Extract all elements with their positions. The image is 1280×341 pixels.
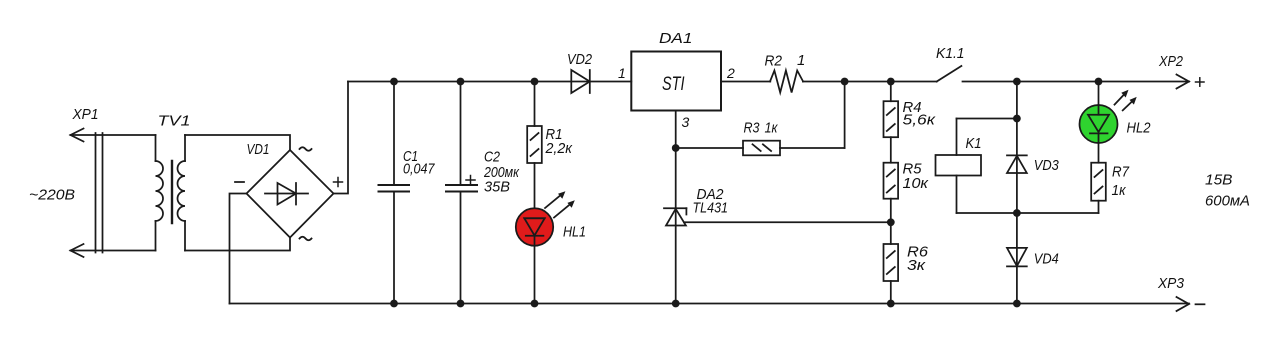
svg-text:10к: 10к bbox=[903, 175, 929, 192]
svg-text:~220В: ~220В bbox=[29, 187, 75, 204]
svg-text:TV1: TV1 bbox=[158, 113, 191, 130]
wire TL431 ref to R5/R6 junction bbox=[684, 221, 891, 223]
svg-text:HL2: HL2 bbox=[1127, 120, 1152, 137]
capacitor C2 bbox=[446, 82, 477, 304]
wire secondary bottom to bridge bbox=[185, 238, 290, 251]
svg-text:1к: 1к bbox=[1112, 182, 1127, 199]
svg-text:TL431: TL431 bbox=[693, 200, 729, 217]
label XP2 plus bbox=[1196, 78, 1205, 86]
connector XP2 arrow bbox=[1177, 75, 1190, 89]
wire R2 right to switch bbox=[803, 81, 937, 83]
label C2 plus bbox=[466, 176, 475, 185]
LED HL1 bbox=[516, 191, 575, 303]
svg-text:XP2: XP2 bbox=[1158, 53, 1183, 70]
transformer TV1 primary winding bbox=[71, 135, 164, 251]
svg-text:VD3: VD3 bbox=[1034, 157, 1060, 174]
wire secondary top to bridge bbox=[185, 135, 290, 150]
wire top rail middle section bbox=[721, 81, 770, 83]
wire top rail left section bbox=[348, 81, 631, 83]
resistor R2 zigzag bbox=[770, 71, 803, 93]
bridge rectifier VD1 bbox=[247, 150, 334, 238]
wire VD3/VD4 branch bbox=[1016, 82, 1018, 304]
shunt regulator DA2 TL431 bbox=[664, 208, 686, 225]
svg-text:HL1: HL1 bbox=[563, 224, 586, 241]
svg-text:DA1: DA1 bbox=[659, 30, 693, 47]
diode VD3 bbox=[1007, 155, 1027, 173]
wire top rail right section bbox=[963, 81, 1190, 83]
svg-text:K1.1: K1.1 bbox=[936, 45, 965, 62]
junction dots top rail bbox=[390, 78, 1102, 86]
wire bridge plus to top rail bbox=[334, 82, 349, 194]
resistor R7 bbox=[1017, 163, 1106, 213]
label bridge minus bbox=[235, 181, 244, 183]
label tilde bottom bbox=[300, 237, 312, 241]
relay K1 bbox=[936, 119, 1017, 214]
svg-text:600мА: 600мА bbox=[1205, 193, 1250, 210]
svg-text:VD4: VD4 bbox=[1034, 251, 1059, 268]
resistor R1 bbox=[527, 82, 542, 209]
connector XP1 bbox=[71, 129, 103, 258]
op-amp U1 / regulator DA1 bbox=[631, 52, 721, 111]
svg-text:VD1: VD1 bbox=[247, 141, 270, 158]
svg-text:0,047: 0,047 bbox=[403, 161, 435, 178]
resistor R5 bbox=[884, 137, 899, 222]
svg-text:R2: R2 bbox=[765, 53, 783, 70]
svg-text:R3: R3 bbox=[744, 120, 761, 137]
wire bottom rail bbox=[230, 303, 1190, 305]
svg-text:35В: 35В bbox=[484, 179, 510, 196]
svg-text:1: 1 bbox=[618, 65, 626, 81]
transformer TV1 core bbox=[171, 161, 173, 223]
junction dots bottom rail bbox=[390, 300, 1021, 308]
LED HL2 bbox=[1080, 82, 1137, 163]
junction dots middle bbox=[672, 115, 1021, 227]
svg-text:2: 2 bbox=[726, 65, 735, 81]
switch K1.1 bbox=[937, 66, 962, 82]
svg-text:STI: STI bbox=[662, 74, 685, 95]
svg-text:5,6к: 5,6к bbox=[903, 112, 937, 129]
svg-text:1: 1 bbox=[797, 52, 805, 69]
resistor R6 bbox=[884, 222, 899, 303]
diode VD4 bbox=[1007, 248, 1027, 267]
label bridge plus bbox=[334, 178, 343, 187]
svg-text:3к: 3к bbox=[907, 257, 926, 274]
svg-text:XP3: XP3 bbox=[1157, 275, 1185, 292]
wire DA1 pin 3 down bbox=[675, 111, 677, 304]
svg-text:2,2к: 2,2к bbox=[545, 140, 573, 157]
label XP3 minus bbox=[1196, 303, 1205, 305]
svg-text:3: 3 bbox=[682, 114, 690, 130]
svg-text:R7: R7 bbox=[1112, 164, 1130, 181]
diode VD2 bbox=[571, 70, 590, 93]
svg-text:C2: C2 bbox=[484, 149, 501, 166]
wire bridge minus to bottom rail bbox=[230, 194, 247, 304]
resistor R4 bbox=[884, 82, 899, 138]
svg-text:15В: 15В bbox=[1205, 172, 1233, 189]
svg-text:1к: 1к bbox=[765, 120, 779, 137]
svg-text:K1: K1 bbox=[966, 135, 982, 152]
transformer TV1 secondary winding bbox=[178, 135, 185, 251]
capacitor C1 bbox=[379, 82, 410, 304]
connector XP3 arrow bbox=[1177, 297, 1190, 311]
resistor R3 bbox=[676, 81, 845, 155]
svg-text:XP1: XP1 bbox=[72, 106, 99, 123]
svg-text:VD2: VD2 bbox=[567, 51, 593, 68]
label tilde top bbox=[300, 147, 312, 151]
